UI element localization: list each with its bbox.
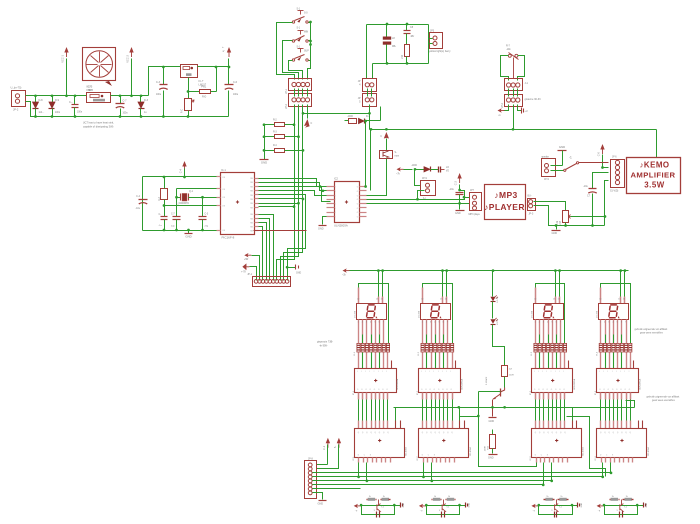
- gnd side 2: [460, 505, 466, 507]
- svg-text:SUP: SUP: [304, 51, 309, 53]
- wire bus h: [313, 488, 361, 490]
- svg-text:gebruik uutgreemde von affikan: gebruik uutgreemde von affikant: [635, 328, 668, 331]
- potentiometer R8: [563, 211, 569, 223]
- svg-text:GND: GND: [646, 502, 648, 507]
- svg-text:-98r: -98r: [410, 35, 414, 38]
- wire rail stub: [604, 217, 606, 226]
- arrow in 2: [245, 266, 250, 268]
- header JP10: [505, 79, 523, 91]
- svg-text:2-B: 2-B: [560, 221, 562, 225]
- wire uln r5 long: [367, 203, 470, 205]
- wire mcu to uln 5: [259, 187, 331, 202]
- ground gnd mcu: [188, 231, 190, 234]
- capacitor C6 100u: [228, 67, 230, 85]
- cascade wire col23: [460, 408, 479, 417]
- svg-text:+-78: +-78: [241, 272, 246, 274]
- svg-text:GND: GND: [559, 145, 565, 149]
- transistor group Q3 arrow: [534, 505, 539, 507]
- resistor R9 220R: [502, 366, 508, 377]
- svg-text:JP-1: JP-1: [285, 88, 288, 94]
- connector JP6 amp: [611, 160, 625, 188]
- led D10: [345, 270, 350, 272]
- svg-text:2-R: 2-R: [509, 369, 513, 371]
- svg-text:100R: 100R: [485, 446, 487, 452]
- wire: [367, 89, 369, 97]
- bus connections col1: [358, 463, 360, 477]
- svg-text:PIC16F-8: PIC16F-8: [222, 236, 235, 240]
- diode D1: [35, 96, 37, 103]
- wire uln r1 up: [365, 121, 367, 187]
- wire switch right common: [309, 23, 311, 61]
- svg-text:(IC7 has to have heat sink,: (IC7 has to have heat sink,: [83, 121, 114, 125]
- wire switch column C: [302, 105, 304, 253]
- wire vplus stub: [518, 105, 522, 111]
- wire base down: [478, 392, 480, 417]
- ic shift register CD4094 3: [532, 429, 582, 458]
- wire: [372, 64, 374, 79]
- svg-text:UDN2981A: UDN2981A: [460, 378, 463, 390]
- fan M1: [83, 48, 116, 81]
- 4094 bottom pins 1: [358, 458, 360, 463]
- svg-text:LS-339: LS-339: [354, 310, 356, 318]
- svg-text:-10u: -10u: [135, 208, 140, 210]
- header JP7 mp3: [470, 193, 482, 211]
- wires resistors to driver disp1: [358, 353, 360, 369]
- resistor 1000 row: [345, 120, 349, 122]
- wire to arrow: [504, 105, 509, 111]
- transistor T1 box: [380, 151, 393, 159]
- 4094 bottom pins 4: [601, 458, 603, 463]
- capacitor C1 100n: [74, 96, 76, 105]
- transistor group Q4 loop: [605, 505, 638, 507]
- svg-text:3.5W: 3.5W: [644, 181, 664, 190]
- svg-text:GND: GND: [318, 228, 324, 231]
- capacitor C3 100u: [163, 67, 165, 85]
- svg-text:100u: 100u: [156, 94, 162, 96]
- wire wiper: [571, 181, 609, 217]
- header JP1: [289, 79, 312, 91]
- supply arrow T1: [384, 132, 389, 139]
- wire mcu to uln 2: [259, 183, 327, 191]
- svg-text:GND: GND: [185, 235, 191, 239]
- gnd kemo rail: [556, 226, 558, 230]
- ic driver UDN2981A 3: [532, 369, 573, 393]
- wire: [26, 102, 229, 117]
- box KEMO amplifier: [627, 158, 681, 194]
- capacitor C2 10u: [456, 192, 464, 194]
- wire bottom rail lamp net: [373, 63, 429, 65]
- capacitor Cg3: [554, 512, 556, 518]
- 4094 bottom pins 3: [536, 458, 538, 463]
- svg-text:U_(n+75): U_(n+75): [11, 86, 22, 90]
- svg-text:GND: GND: [403, 502, 405, 507]
- wire bus to kemo: [656, 130, 658, 158]
- wire jpb2: [418, 191, 425, 200]
- svg-text:C: C: [380, 135, 382, 138]
- display DIS1: [357, 304, 387, 320]
- svg-text:R-D: R-D: [202, 96, 207, 99]
- svg-text:yellow light(s) berry: yellow light(s) berry: [429, 50, 451, 53]
- wire fanout e: [259, 215, 274, 281]
- supply VCC4 arrow: [184, 166, 186, 171]
- svg-text:C-6: C-6: [233, 81, 238, 84]
- svg-text:MP3 playe: MP3 playe: [469, 213, 481, 216]
- wire switch2 left: [283, 41, 299, 80]
- wire rail drop b disp3: [558, 269, 561, 272]
- supply VCC2 arrow: [131, 59, 133, 96]
- resistor Rb2: [447, 498, 454, 501]
- wire fanout c: [259, 204, 299, 281]
- cascade wire col34: [567, 417, 606, 477]
- svg-text:0 12hFE: 0 12hFE: [486, 376, 488, 385]
- svg-text:98L: 98L: [392, 45, 397, 48]
- display pins disp2: [422, 320, 424, 344]
- svg-text:C-4: C-4: [136, 195, 141, 198]
- header JP-ICSP: [253, 277, 291, 287]
- gnd side 1: [395, 505, 401, 507]
- wire jp5 pin2: [534, 206, 605, 226]
- box MP3 player: [485, 185, 526, 220]
- trimmer R6: [508, 54, 511, 57]
- wire fanout b: [259, 199, 303, 281]
- resistor Ra3: [545, 498, 552, 501]
- resistor row R3: [534, 343, 537, 352]
- display pins disp3: [535, 320, 537, 344]
- svg-text:-10u: -10u: [583, 185, 588, 188]
- gnd jp8: [313, 493, 323, 500]
- svg-text:UDN2981A: UDN2981A: [573, 378, 576, 390]
- 4094 bottom pins 2: [423, 458, 425, 463]
- svg-text:speake: speake: [542, 157, 550, 159]
- capacitor C9 22p: [173, 216, 181, 218]
- svg-text:1k: 1k: [383, 496, 385, 498]
- svg-text:gisproots 73B-: gisproots 73B-: [317, 341, 333, 344]
- wire vss rail: [143, 230, 217, 232]
- driver extra pin 1: [391, 361, 393, 369]
- svg-text:C-: C-: [159, 214, 162, 216]
- wire switch column A: [294, 105, 296, 260]
- header JP4b: [363, 94, 377, 107]
- wire: [404, 169, 413, 171]
- svg-text:MIN: MIN: [304, 32, 309, 34]
- wire: [428, 25, 430, 64]
- svg-text:R-4: R-4: [158, 196, 161, 201]
- wires driver to 4094 4: [600, 393, 602, 400]
- wire fanout f: [259, 219, 270, 281]
- svg-text:GND: GND: [455, 212, 461, 215]
- svg-text:JP-8: JP-8: [308, 458, 313, 460]
- diode D6: [415, 169, 425, 171]
- wire: [164, 206, 166, 217]
- transistor group Q4 arrow: [599, 505, 604, 507]
- ic driver UDN2981A 4: [597, 369, 639, 393]
- wire header links2: [508, 89, 510, 97]
- svg-text:100n: 100n: [55, 112, 61, 114]
- gnd uln: [323, 217, 327, 225]
- svg-text:-fe 999-: -fe 999-: [319, 345, 328, 348]
- capacitor Cg1: [376, 512, 378, 518]
- svg-text:I/O: I/O: [446, 171, 449, 173]
- svg-text:7805: 7805: [88, 89, 94, 92]
- wire common loop disp3: [536, 284, 565, 344]
- hook wire 2: [459, 408, 461, 421]
- resistor Ra2: [433, 498, 440, 501]
- display DIS3: [534, 304, 564, 320]
- svg-text:LS-339: LS-339: [418, 310, 420, 318]
- svg-text:gean wees eventelfies: gean wees eventelfies: [652, 399, 676, 402]
- connector JP3 lamp: [430, 33, 443, 49]
- svg-text:GND: GND: [581, 502, 583, 507]
- svg-text:BU-: BU-: [528, 196, 532, 198]
- svg-text:R-B: R-B: [488, 445, 490, 449]
- wire to jpb: [415, 170, 421, 186]
- resistor row R4: [599, 343, 602, 352]
- wire to bus2: [513, 105, 515, 130]
- svg-text:CD-4094: CD-4094: [470, 446, 472, 456]
- wire rail drop b disp1: [381, 269, 384, 272]
- supply VCC5 arrow: [459, 178, 461, 183]
- regulator IC5 7805: [87, 93, 111, 103]
- svg-text:JP-9: JP-9: [422, 178, 427, 180]
- wire trimmer right: [518, 56, 525, 81]
- svg-text:C-1: C-1: [322, 445, 326, 450]
- wire common loop disp2: [423, 284, 453, 344]
- arrow in 1: [247, 254, 252, 256]
- wire bus h: [313, 484, 544, 486]
- driver extra pin 4: [633, 361, 635, 369]
- svg-text:GND: GND: [552, 232, 558, 235]
- svg-text:+-: +-: [222, 46, 224, 49]
- svg-text:100u: 100u: [233, 94, 239, 96]
- gnd side 4: [638, 505, 644, 507]
- svg-text:-1000: -1000: [411, 165, 418, 167]
- gnd speaker up: [558, 150, 567, 152]
- ic shift register CD4094 1: [355, 429, 405, 458]
- svg-text:R-7: R-7: [506, 45, 511, 48]
- wire: [149, 67, 181, 96]
- svg-text:IC-1: IC-1: [221, 169, 226, 172]
- wire: [142, 177, 144, 231]
- transistor group Q3 loop: [539, 505, 573, 507]
- svg-text:S-: S-: [395, 152, 398, 154]
- wire rail drop b disp4: [624, 269, 627, 272]
- hook wire 3: [572, 408, 574, 421]
- wire adj: [188, 78, 190, 92]
- ic shift register CD4094 4: [597, 429, 647, 458]
- svg-text:-1: -1: [569, 156, 572, 160]
- svg-text:AMPLIFIER: AMPLIFIER: [630, 170, 675, 179]
- svg-text:-1000: -1000: [347, 116, 354, 118]
- svg-text:1n4...: 1n4...: [39, 112, 45, 114]
- wire to bus: [369, 105, 371, 130]
- svg-text:-V: -V: [222, 50, 225, 53]
- ic U2 ULN2803A: [335, 182, 360, 223]
- svg-text:UDN2981A: UDN2981A: [396, 378, 399, 390]
- svg-text:C-7: C-7: [123, 100, 128, 103]
- bus connections col2: [423, 463, 425, 477]
- diode D7 bars: [438, 167, 440, 173]
- wire bus h: [313, 476, 603, 478]
- wire uln r4 long: [367, 198, 470, 200]
- svg-text:1k: 1k: [434, 496, 436, 498]
- svg-text:JP-2: JP-2: [13, 108, 19, 112]
- wire display rail: [350, 270, 629, 272]
- svg-text:LO-56: LO-56: [497, 319, 499, 325]
- transistor group Q2 arrow: [421, 505, 426, 507]
- regulator IC6 LM317: [181, 65, 198, 78]
- wire: [26, 95, 87, 97]
- wire switch1 left: [277, 23, 295, 80]
- svg-text:JP-1: JP-1: [247, 274, 252, 276]
- svg-text:JP 6: JP 6: [612, 157, 617, 159]
- svg-text:GND: GND: [489, 420, 495, 423]
- resistor R-B mid: [492, 430, 494, 435]
- svg-text:capable of dissipating 3W): capable of dissipating 3W): [83, 125, 114, 129]
- svg-text:gisterne 30-33: gisterne 30-33: [525, 98, 542, 101]
- wire bus407: [394, 407, 635, 409]
- led colon D12: [490, 319, 495, 323]
- svg-text:JP-9: JP-9: [544, 179, 549, 181]
- red net: [254, 230, 307, 232]
- ic driver UDN2981A 2: [419, 369, 461, 393]
- svg-text:1k: 1k: [612, 496, 614, 498]
- wire cross link: [303, 113, 370, 115]
- svg-text:D-9: D-9: [55, 99, 60, 102]
- wire colon drop: [492, 269, 495, 272]
- ic shift register CD4094 2: [419, 429, 469, 458]
- svg-text:1k: 1k: [369, 496, 371, 498]
- wire header links: [294, 89, 296, 97]
- diode D3: [140, 96, 142, 103]
- wire uln r2 up: [370, 130, 372, 191]
- resistor Rb1: [382, 498, 389, 501]
- wire bus h: [313, 472, 611, 474]
- capacitor C4 10u: [139, 199, 148, 201]
- svg-text:-10u: -10u: [449, 188, 454, 191]
- gnd mp3: [459, 204, 461, 210]
- gnd side 3: [573, 505, 578, 507]
- wire trimmer left: [501, 56, 509, 81]
- svg-text:Q-1: Q-1: [189, 190, 194, 193]
- resistor row R1: [357, 343, 360, 352]
- svg-text:D-8: D-8: [39, 99, 44, 102]
- resistor RD: [189, 91, 200, 93]
- svg-text:gebruik uutgreemde von affikan: gebruik uutgreemde von affikant: [647, 396, 680, 399]
- capacitor C9: [406, 25, 408, 31]
- wires resistors to driver disp3: [535, 353, 537, 369]
- svg-text:GND: GND: [488, 456, 494, 459]
- svg-text:gean wees eventelfies: gean wees eventelfies: [640, 332, 664, 335]
- supply VCC6 arrow: [602, 149, 604, 154]
- gnd colon emitter: [492, 400, 494, 417]
- display DIS2: [421, 304, 451, 320]
- header JP11: [505, 95, 523, 107]
- svg-text:LO-16: LO-16: [497, 296, 499, 302]
- switch MIN: [292, 40, 294, 42]
- resistor row R2: [421, 343, 424, 352]
- wire rail drop b disp2: [445, 269, 448, 272]
- ic driver UDN2981A 1: [355, 369, 397, 393]
- supply VCC3 arrow: [228, 59, 230, 67]
- svg-text:2-R: 2-R: [402, 55, 404, 59]
- wire: [111, 95, 149, 97]
- display pins disp1: [358, 320, 360, 344]
- wire fanout d: [259, 207, 295, 281]
- wire jp5 pin1: [534, 202, 566, 211]
- svg-text:+U: +U: [525, 111, 528, 113]
- wire mclr: [165, 205, 217, 207]
- transistor Q2: [443, 500, 445, 505]
- svg-text:LO: LO: [446, 167, 449, 169]
- diode D4: [359, 118, 365, 123]
- bus connections col4: [602, 463, 604, 477]
- display DIS4: [599, 304, 629, 320]
- switch S4: [551, 170, 564, 172]
- supply arrow vJ1: [327, 443, 329, 448]
- svg-text:♪MP3: ♪MP3: [494, 190, 517, 200]
- wire: [366, 25, 368, 79]
- svg-text:C-2: C-2: [454, 180, 458, 185]
- resistor R4 pullup: [161, 189, 168, 200]
- svg-text:JP-2: JP-2: [501, 102, 504, 108]
- supply arrow vJ2: [338, 443, 340, 448]
- svg-text:C-4: C-4: [179, 168, 183, 173]
- capacitor C7 100u: [120, 96, 122, 104]
- wire common loop disp4: [601, 284, 631, 344]
- transistor Q5: [500, 389, 502, 397]
- wire uln r3 transistor: [367, 158, 387, 196]
- svg-text:C--: C--: [69, 101, 73, 104]
- svg-text:CD-4094: CD-4094: [648, 446, 650, 456]
- gnd rb: [489, 454, 498, 456]
- svg-text:UDN2981A: UDN2981A: [639, 378, 642, 390]
- svg-text:VCC-1: VCC-1: [61, 54, 65, 62]
- resistor R4 pull: [265, 150, 275, 152]
- led colon D11: [490, 297, 495, 301]
- transistor group Q2 loop: [427, 505, 460, 507]
- wire fanout a: [259, 195, 306, 281]
- svg-text:100n: 100n: [77, 112, 83, 114]
- capacitor Cg2: [441, 512, 443, 518]
- connector speaker JP9: [542, 159, 556, 177]
- resistor Rb3: [559, 498, 566, 501]
- svg-text:CD-4094: CD-4094: [406, 446, 408, 456]
- svg-text:GND: GND: [468, 502, 470, 507]
- connector JP2 power input: [12, 91, 26, 107]
- wire colon base: [479, 391, 501, 393]
- wire fanout g: [259, 223, 267, 281]
- wire stub: [380, 107, 382, 121]
- transistor group Q1 loop: [362, 505, 395, 507]
- wire rail drop a disp2: [441, 269, 444, 272]
- svg-text:GND: GND: [318, 502, 324, 505]
- wire vcc to jp7: [460, 191, 465, 198]
- svg-text:4_0000MHz: 4_0000MHz: [176, 202, 190, 205]
- wire rail drop a disp1: [377, 269, 380, 272]
- trimmer RC: [188, 92, 190, 99]
- driver extra pin 2: [455, 361, 457, 369]
- wires driver to 4094 1: [358, 393, 360, 400]
- svg-text:JP3: JP3: [430, 30, 435, 33]
- svg-text:1k: 1k: [448, 496, 450, 498]
- bus connections col3: [543, 463, 545, 485]
- gnd link right: [288, 267, 296, 269]
- capacitor Cg4: [619, 512, 621, 518]
- svg-text:1k: 1k: [560, 496, 562, 498]
- resistor R3 pull: [265, 136, 275, 138]
- red net to jp6: [579, 162, 609, 164]
- svg-text:1k: 1k: [626, 496, 628, 498]
